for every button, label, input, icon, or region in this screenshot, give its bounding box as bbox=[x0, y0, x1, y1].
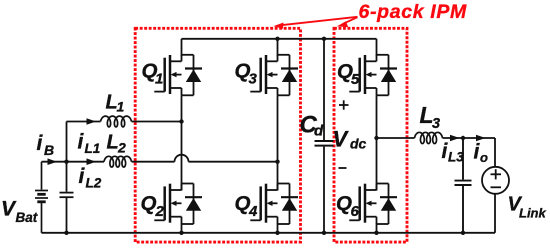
svg-text:6: 6 bbox=[351, 203, 360, 220]
node input cap bottom bbox=[64, 231, 68, 235]
svg-text:B: B bbox=[44, 142, 54, 158]
wire L2 branch right bbox=[189, 161, 278, 163]
capacitor output filter bbox=[455, 138, 472, 233]
wire leg3 middle bbox=[376, 95, 378, 190]
label Q5 bbox=[337, 60, 360, 88]
label L1 bbox=[106, 92, 125, 115]
node L1 leg1 bbox=[179, 119, 183, 123]
svg-text:Q: Q bbox=[141, 192, 157, 215]
label iL3 bbox=[442, 140, 465, 165]
svg-text:L: L bbox=[107, 132, 119, 154]
annotation arrow to box 2 bbox=[337, 17, 358, 27]
node L2 leg2 bbox=[275, 160, 279, 164]
current arrow iL1 bbox=[87, 118, 97, 125]
node leg3 mid bbox=[374, 136, 378, 140]
svg-text:2: 2 bbox=[117, 140, 126, 156]
current arrow iL3 bbox=[450, 135, 460, 142]
wire L3 branch right bbox=[443, 137, 496, 139]
wire leg1 top bbox=[181, 39, 183, 56]
label VLink bbox=[508, 194, 547, 221]
label - Vdc bbox=[339, 167, 347, 169]
node leg1 bottom bbox=[179, 231, 183, 235]
transistor Q2 bbox=[154, 184, 202, 225]
wire leg2 middle bbox=[277, 95, 279, 190]
node Cd top bbox=[322, 37, 326, 41]
capacitor input filter bbox=[60, 122, 74, 233]
wire L1 branch right bbox=[132, 121, 182, 123]
IPM dotted box 1 (Q1-Q4) bbox=[135, 28, 300, 242]
transistor Q1 bbox=[154, 55, 202, 96]
wire L3 branch left bbox=[377, 137, 415, 139]
wire VLink bottom bbox=[494, 194, 496, 233]
svg-text:5: 5 bbox=[351, 71, 360, 88]
svg-text:3: 3 bbox=[249, 71, 258, 88]
svg-text:1: 1 bbox=[155, 71, 163, 88]
node output cap bottom bbox=[461, 231, 465, 235]
wire leg1 middle bbox=[181, 95, 183, 190]
svg-text:2: 2 bbox=[155, 203, 165, 220]
wire L2 branch left bbox=[67, 161, 105, 163]
svg-text:3: 3 bbox=[432, 116, 440, 132]
wire leg2 bottom bbox=[277, 224, 279, 233]
label Q2 bbox=[141, 192, 165, 220]
svg-text:Link: Link bbox=[519, 206, 546, 221]
svg-text:1: 1 bbox=[117, 99, 125, 115]
label Cd bbox=[300, 112, 325, 140]
transistor Q6 bbox=[349, 184, 397, 225]
svg-text:L3: L3 bbox=[448, 150, 464, 165]
svg-text:L2: L2 bbox=[86, 176, 102, 191]
svg-text:V: V bbox=[333, 127, 350, 152]
svg-text:6-pack IPM: 6-pack IPM bbox=[359, 1, 467, 23]
wire VLink top bbox=[494, 138, 496, 167]
inductor L2 bbox=[104, 156, 132, 167]
transistor Q4 bbox=[250, 184, 298, 225]
label io bbox=[474, 141, 489, 166]
capacitor Cd bbox=[315, 39, 334, 233]
svg-text:o: o bbox=[480, 150, 488, 165]
current arrow io bbox=[476, 135, 486, 142]
node leg2 top bbox=[275, 37, 279, 41]
source VLink bbox=[482, 167, 509, 194]
svg-text:Bat: Bat bbox=[16, 210, 38, 225]
annotation arrow to box 1 bbox=[274, 17, 358, 29]
current arrow iL2 bbox=[87, 158, 97, 165]
wire leg3 top bbox=[376, 39, 378, 56]
wire leg1 bottom bbox=[181, 224, 183, 233]
wire leg3 bottom bbox=[376, 224, 378, 233]
label iL2 bbox=[79, 165, 102, 191]
svg-text:4: 4 bbox=[248, 203, 258, 220]
inductor L1 bbox=[101, 116, 132, 127]
wire L2 middle bbox=[132, 161, 175, 163]
IPM dotted box 2 (Q5-Q6) bbox=[334, 28, 407, 242]
label L3 bbox=[420, 102, 441, 132]
label Q3 bbox=[235, 60, 258, 88]
label + Vdc bbox=[339, 100, 349, 109]
wire crossover hump bbox=[175, 155, 189, 162]
label L2 bbox=[107, 132, 127, 156]
label Q6 bbox=[336, 192, 360, 220]
node input cap top bbox=[64, 160, 68, 164]
battery VBat bbox=[35, 162, 48, 233]
current arrow iB bbox=[48, 158, 58, 165]
node leg2 bottom bbox=[275, 231, 279, 235]
wire bottom rail bbox=[42, 232, 496, 234]
transistor Q5 bbox=[349, 55, 397, 96]
label Q1 bbox=[142, 60, 164, 88]
label Vdc bbox=[333, 127, 367, 152]
wire iB bbox=[42, 161, 67, 163]
node Cd bottom bbox=[322, 231, 326, 235]
svg-text:L1: L1 bbox=[85, 141, 101, 156]
node leg3 bottom bbox=[374, 231, 378, 235]
wire leg2 top bbox=[277, 39, 279, 56]
transistor Q3 bbox=[250, 55, 298, 96]
wire top rail bbox=[182, 38, 377, 40]
label VBat bbox=[1, 197, 38, 225]
wire L1 branch left bbox=[67, 121, 101, 123]
node output cap top bbox=[461, 136, 465, 140]
inductor L3 bbox=[415, 132, 443, 143]
label iL1 bbox=[78, 131, 101, 157]
svg-text:d: d bbox=[314, 123, 324, 140]
label Q4 bbox=[235, 192, 259, 220]
svg-text:dc: dc bbox=[350, 136, 367, 152]
label iB bbox=[37, 132, 55, 158]
